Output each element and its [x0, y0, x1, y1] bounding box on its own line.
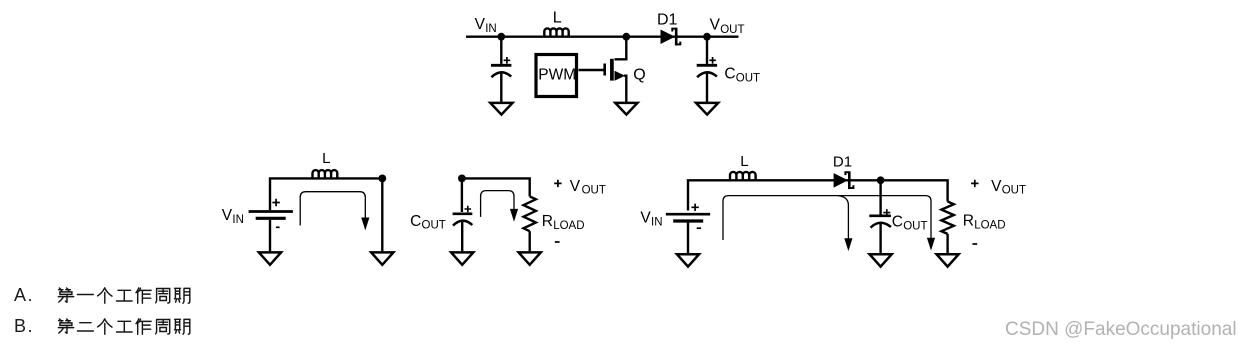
ground (MOSFET source): [615, 103, 637, 115]
svg-text:IN: IN: [485, 23, 497, 35]
label RLOAD (c3): [542, 213, 585, 232]
svg-text:R: R: [963, 213, 974, 230]
wire top rail: [466, 36, 739, 38]
svg-text:CSDN @FakeOccupational: CSDN @FakeOccupational: [1005, 319, 1237, 340]
wire node to Cout: [706, 37, 708, 64]
wire Cin to ground: [500, 72, 502, 103]
svg-text:V: V: [640, 210, 651, 227]
node VOUT: [703, 33, 711, 41]
ground (input cap): [490, 103, 512, 115]
current loop arrow (c2): [300, 192, 369, 231]
text char 周 (row B): [156, 320, 170, 335]
label + VOUT (c4): [971, 178, 1026, 197]
capacitor COUT (top circuit): [697, 57, 717, 77]
svg-text:V: V: [475, 16, 486, 33]
label VIN (c2): [222, 207, 244, 226]
label minus (c3): [555, 241, 560, 243]
diode D1 (schottky): [661, 28, 681, 46]
resistor RLOAD (c3): [524, 196, 536, 231]
wire node to Cout (c4): [879, 180, 881, 214]
node VIN: [497, 33, 505, 41]
label COUT: [724, 65, 760, 84]
capacitor Cin: [491, 57, 511, 77]
label COUT (c4): [892, 214, 928, 233]
PWM box U1: [536, 55, 577, 97]
svg-text:L: L: [740, 153, 748, 170]
node (c2): [378, 175, 386, 183]
wire top rail c4: [688, 180, 948, 210]
ground resistor (c4): [937, 254, 959, 266]
svg-text:OUT: OUT: [903, 220, 927, 232]
svg-text:C: C: [892, 214, 903, 231]
svg-text:V: V: [991, 178, 1002, 195]
node (c3): [458, 175, 466, 183]
text char 期 (row B): [175, 319, 190, 334]
svg-text:OUT: OUT: [422, 220, 446, 232]
ground resistor (c3): [519, 252, 541, 264]
svg-text:Q: Q: [633, 66, 645, 83]
wire top rail c3: [462, 178, 530, 196]
inductor L (c2): [313, 170, 338, 178]
svg-text:D1: D1: [833, 154, 852, 171]
svg-text:V: V: [222, 207, 233, 224]
ground Cout (c4): [870, 254, 892, 266]
text char 个 (row A): [98, 288, 112, 303]
svg-text:B.: B.: [14, 316, 34, 336]
svg-text:PWM: PWM: [538, 67, 576, 84]
ground battery (c4): [677, 254, 699, 266]
label VIN (c4): [640, 210, 662, 229]
svg-text:D1: D1: [657, 12, 678, 29]
svg-text:OUT: OUT: [720, 24, 744, 36]
resistor RLOAD (c4): [941, 202, 953, 234]
wire cap to ground (c3): [461, 220, 463, 252]
svg-text:R: R: [542, 213, 553, 230]
wire top rail c2: [270, 178, 382, 210]
text char 一 (row A): [78, 294, 94, 296]
svg-text:OUT: OUT: [1002, 185, 1026, 197]
label minus (c4): [972, 243, 977, 245]
inductor L: [544, 28, 568, 36]
inductor L (c4): [730, 172, 756, 180]
battery VIN (c2): [249, 199, 293, 228]
text char 期 (row A): [175, 288, 190, 303]
label + VOUT (c3): [554, 178, 606, 197]
ground cap (c3): [451, 252, 473, 264]
node drain: [622, 33, 630, 41]
wire node to ground (c2): [381, 178, 383, 251]
text char 工 (row B): [117, 321, 133, 332]
text char 作 (row B): [136, 319, 151, 334]
text char 二 (row B): [78, 323, 94, 331]
svg-text:C: C: [410, 213, 421, 230]
svg-text:A.: A.: [14, 285, 34, 305]
text char 周 (row A): [156, 289, 170, 304]
wire battery to ground (c4): [687, 223, 689, 254]
transistor Q (N-MOSFET): [605, 37, 627, 102]
svg-text:OUT: OUT: [582, 185, 606, 197]
svg-text:IN: IN: [651, 217, 663, 229]
capacitor COUT (c3): [453, 206, 473, 226]
ground battery (c2): [259, 252, 281, 264]
svg-text:L: L: [322, 150, 330, 167]
current loop arrow (c3): [481, 191, 518, 222]
wire resistor to ground (c3): [529, 231, 531, 251]
node (c4): [877, 176, 885, 184]
ground (output cap): [696, 103, 718, 115]
current loop arrow main (c4): [723, 196, 935, 251]
label VOUT: [710, 17, 745, 37]
diode D1 (c4): [834, 171, 854, 189]
text char 作 (row A): [136, 288, 151, 303]
text char 个 (row B): [98, 319, 112, 334]
current loop arrow branch (c4): [838, 196, 853, 252]
svg-text:V: V: [710, 17, 721, 34]
text char 工 (row A): [117, 290, 133, 301]
capacitor COUT (c4): [869, 209, 891, 228]
wire battery to ground (c2): [269, 220, 271, 252]
svg-text:L: L: [553, 10, 562, 27]
wire PWM to gate: [579, 69, 605, 71]
wire Cout to ground (c4): [879, 222, 881, 253]
wire Cout to ground: [706, 72, 708, 103]
svg-text:IN: IN: [232, 214, 244, 226]
text char 第 (row B): [58, 319, 73, 333]
text char 第 (row A): [58, 288, 73, 302]
label RLOAD (c4): [963, 213, 1006, 232]
label VIN: [475, 16, 497, 35]
label COUT (c3): [410, 213, 446, 232]
svg-text:LOAD: LOAD: [974, 220, 1005, 232]
wire resistor to ground (c4): [946, 234, 948, 254]
wire node to cap (c3): [461, 178, 463, 212]
svg-text:LOAD: LOAD: [553, 220, 584, 232]
ground right (c2): [371, 252, 393, 264]
svg-text:C: C: [724, 65, 735, 82]
svg-text:V: V: [570, 178, 581, 195]
battery VIN (c4): [666, 204, 710, 229]
wire node to Cin: [500, 37, 502, 64]
svg-text:OUT: OUT: [736, 72, 760, 84]
